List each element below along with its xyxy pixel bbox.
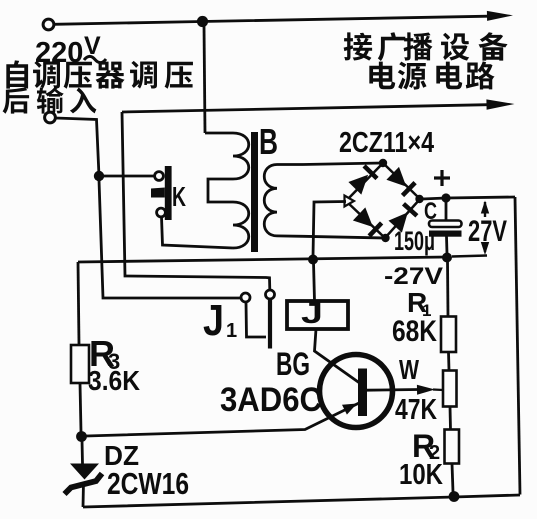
resistor R2 body xyxy=(445,430,460,464)
wire: -27V node to R1 xyxy=(446,260,449,317)
svg-text:K: K xyxy=(172,181,186,212)
measurement arrow 27V: down head xyxy=(481,242,489,255)
transistor BG 3AD6C: envelope circle xyxy=(320,355,393,428)
svg-text:3AD6C: 3AD6C xyxy=(220,381,322,419)
bridge diode D2 (top to right) xyxy=(386,167,406,187)
wire: -27V rail xyxy=(78,257,447,262)
node: -27V rail / C / R1 xyxy=(442,253,452,263)
terminal: 220V input top xyxy=(43,19,54,30)
resistor R1 body xyxy=(441,317,456,353)
resistor R3 body xyxy=(71,345,89,383)
wire: R3 to emitter node xyxy=(80,383,81,432)
relay coil J box xyxy=(287,301,348,329)
svg-text:C: C xyxy=(424,198,437,225)
wire: node to contact K xyxy=(99,175,155,178)
wire: plus rail from bridge xyxy=(422,197,515,199)
transformer B: primary winding xyxy=(205,133,249,248)
rectifier bridge 2CZ11x4: diamond xyxy=(346,163,420,238)
wire: bottom terminal to K branch node xyxy=(56,118,100,176)
measurement arrow 27V: bottom tick xyxy=(452,256,487,257)
wire: secondary bottom to bridge AC node xyxy=(303,236,385,238)
svg-text:150μ: 150μ xyxy=(394,226,435,256)
wire: right rail xyxy=(515,197,520,495)
svg-text:W: W xyxy=(399,354,419,385)
terminal: 220V input bottom xyxy=(45,112,56,123)
capacitor C: positive lead xyxy=(445,200,448,221)
relay contact J1: left lead L xyxy=(246,302,266,337)
node: plus rail / capacitor C xyxy=(441,193,450,202)
relay contact K: fixed contact top xyxy=(155,172,164,181)
wire: top 220V line to output arrow xyxy=(54,16,489,24)
svg-text:10K: 10K xyxy=(399,459,443,491)
wire: R2 to bottom rail xyxy=(452,464,453,493)
wire: output line 2 shaft xyxy=(122,105,488,112)
wire: output2 down to J1 right contact xyxy=(122,112,270,290)
measurement arrow 27V: lower segment xyxy=(484,243,486,252)
label: jie guang bo she bei (to broadcast equipment) xyxy=(344,32,508,61)
relay contact K: fixed contact bottom xyxy=(157,208,166,217)
label: dian yuan dian lu (power circuit) xyxy=(369,61,494,89)
node: K branch junction xyxy=(94,171,104,181)
svg-text:27V: 27V xyxy=(468,215,507,248)
label: zi tiao ya qi tiao ya (regulated input) xyxy=(6,60,193,88)
node: bridge DC minus (open) xyxy=(345,196,355,207)
label: hou shu ru xyxy=(3,87,97,114)
zener diode DZ: cathode bar xyxy=(65,474,103,495)
wire: base to potentiometer wiper xyxy=(366,388,428,392)
node: junction of top line and transformer primary xyxy=(197,16,208,27)
bridge diode D4 (bottom to right) xyxy=(389,212,408,232)
transistor BG: emitter arrowhead xyxy=(342,404,357,415)
wire: primary feed from top line xyxy=(204,25,205,133)
bridge diode D1 (left to top) xyxy=(348,175,368,195)
bridge diode D3 (left to bottom) xyxy=(353,207,373,227)
svg-text:2CZ11×4: 2CZ11×4 xyxy=(339,127,434,159)
relay contact J1: left contact xyxy=(241,293,250,302)
relay contact J1: right contact xyxy=(266,290,275,299)
node: -27V rail / bridge minus / relay J xyxy=(308,255,318,265)
wire: left rail -27V to R3 xyxy=(78,262,79,345)
svg-text:B: B xyxy=(259,121,278,162)
zener diode DZ: triangle xyxy=(70,464,99,480)
wire: R1 to W xyxy=(447,352,450,371)
capacitor C: positive plate xyxy=(429,221,462,228)
svg-text:BG: BG xyxy=(276,346,310,382)
capacitor C: negative lead xyxy=(445,237,448,255)
node: bridge AC bottom xyxy=(381,234,389,242)
wire: node to zener DZ xyxy=(81,440,84,464)
node: bridge AC top xyxy=(379,159,387,167)
svg-text:1: 1 xyxy=(226,320,237,342)
transistor BG: base bar xyxy=(358,369,367,417)
wire: bottom rail xyxy=(83,495,520,507)
svg-text:J: J xyxy=(301,297,323,330)
wire: DZ to bottom rail xyxy=(82,482,85,507)
arrow: to broadcast equipment (top line) xyxy=(487,11,513,21)
svg-text:68K: 68K xyxy=(392,315,437,348)
relay contact K: armature bar xyxy=(165,166,172,220)
relay contact J1: movable bar xyxy=(268,299,272,349)
transformer B: core xyxy=(251,132,258,252)
potentiometer W body xyxy=(443,371,457,407)
svg-text:2CW16: 2CW16 xyxy=(107,466,189,501)
svg-text:J: J xyxy=(203,296,224,345)
wire: bridge minus down to -27V rail xyxy=(313,202,346,258)
transistor BG: emitter lead xyxy=(86,403,359,436)
measurement arrow 27V: upper segment xyxy=(484,202,486,217)
arrow: potentiometer wiper xyxy=(417,385,435,395)
measurement arrow 27V: up head xyxy=(481,201,489,214)
wire: secondary top to bridge AC node xyxy=(303,163,383,165)
arrow: to broadcast equipment (line 2) xyxy=(486,99,514,109)
capacitor C: negative plate xyxy=(429,231,462,237)
wire: node down to J1 left contact xyxy=(99,180,241,298)
label ~ (tilde under V) xyxy=(84,56,106,62)
svg-text:-27V: -27V xyxy=(384,263,443,290)
svg-text:47K: 47K xyxy=(395,394,437,426)
wire: W to R2 xyxy=(449,407,452,430)
wire: relay J to -27V rail xyxy=(314,262,315,301)
wire: K bottom contact to transformer primary bottom xyxy=(162,217,234,248)
node: bridge DC plus xyxy=(415,195,423,203)
wire: relay J to collector of BG xyxy=(315,329,362,384)
node: bottom rail / R2 xyxy=(449,491,460,502)
svg-text:3.6K: 3.6K xyxy=(88,365,140,396)
node: emitter / R3 / DZ xyxy=(76,431,87,442)
label + xyxy=(434,176,450,179)
relay contact K: wedge xyxy=(151,188,165,198)
transformer B: secondary winding xyxy=(264,165,303,237)
